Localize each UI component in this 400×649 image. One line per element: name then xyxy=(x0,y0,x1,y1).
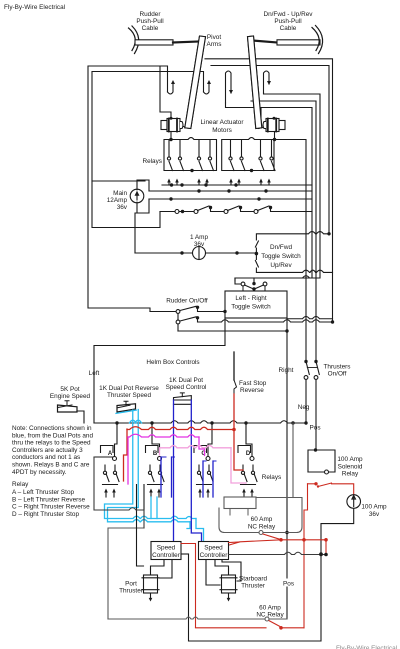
svg-text:Pos: Pos xyxy=(283,581,294,588)
relays label xyxy=(142,158,162,165)
svg-text:blue, from the Dual Pots and: blue, from the Dual Pots and xyxy=(12,432,93,439)
long vertical x287 xyxy=(286,318,288,619)
pivot arm left xyxy=(185,36,206,129)
svg-text:A: A xyxy=(108,451,113,457)
relay A xyxy=(101,446,117,461)
red feeds to SCs xyxy=(181,544,196,628)
up-arrow stubs to relays xyxy=(167,179,171,186)
main breaker CB1 xyxy=(130,189,144,203)
dn/fwd cable wire xyxy=(252,41,277,43)
svg-text:Pos: Pos xyxy=(310,425,321,432)
left actuator motor M1 xyxy=(160,66,188,132)
svg-text:Engine Speed: Engine Speed xyxy=(50,393,91,400)
right actuator motor M2 xyxy=(259,108,286,132)
svg-text:thru the relays to the Speed: thru the relays to the Speed xyxy=(12,440,91,447)
svg-text:Speed: Speed xyxy=(157,545,176,552)
black return from 100amp xyxy=(189,508,354,641)
hook 3 xyxy=(226,71,232,103)
pivot arms label xyxy=(207,34,222,48)
svg-text:Fly-By-Wire Electrical: Fly-By-Wire Electrical xyxy=(336,645,397,649)
svg-text:B – Left Thruster Reverse: B – Left Thruster Reverse xyxy=(12,496,85,503)
svg-text:B: B xyxy=(153,451,158,457)
grey enclosure xyxy=(108,528,265,619)
pivot arm right (over wires) xyxy=(248,36,262,129)
dn/fwd up/rev cable label xyxy=(263,11,313,32)
rudder push-pull cable label xyxy=(136,11,163,32)
left-right SPDT on top xyxy=(253,278,255,284)
svg-text:Helm Box Controls: Helm Box Controls xyxy=(146,359,199,366)
wire: top outer right xyxy=(205,59,333,322)
magenta wires xyxy=(128,434,199,437)
dn/fwd top contact xyxy=(255,232,329,254)
svg-text:D: D xyxy=(246,451,251,457)
svg-text:Motors: Motors xyxy=(212,127,232,134)
grey y510 wire xyxy=(94,457,144,528)
wire: motor1 bottom stub xyxy=(170,132,172,140)
rudder cable wire xyxy=(173,42,199,43)
up arrow stubs below relay D xyxy=(242,489,246,498)
cyan dual pot P2 xyxy=(117,404,136,412)
svg-text:Right: Right xyxy=(279,367,294,374)
svg-text:Cable: Cable xyxy=(142,25,159,32)
svg-text:1K Dual Pot Reverse: 1K Dual Pot Reverse xyxy=(99,385,159,392)
cyan tail into SC2 xyxy=(196,519,204,542)
pivot arm right xyxy=(248,36,262,129)
svg-text:Reverse: Reverse xyxy=(240,387,264,394)
wire: fuse row left drop xyxy=(135,213,137,253)
cyan verticals from pot xyxy=(105,410,197,519)
svg-text:Thruster Speed: Thruster Speed xyxy=(107,392,151,399)
svg-text:Up/Rev: Up/Rev xyxy=(270,262,292,269)
dn/fwd cable squiggle xyxy=(312,26,323,54)
60 amp NC relay 1 xyxy=(219,497,302,533)
dn/fwd cable sleeve xyxy=(277,40,320,45)
svg-text:Left: Left xyxy=(89,370,100,377)
wire: left outer frame xyxy=(88,66,168,312)
svg-text:On/Off: On/Off xyxy=(328,371,347,378)
rudder cable squiggle xyxy=(129,26,139,54)
fast stop switch P4 xyxy=(233,352,235,380)
svg-text:Toggle Switch: Toggle Switch xyxy=(261,253,301,260)
relay D xyxy=(238,446,254,461)
pivot arm left (over wires) xyxy=(185,36,206,129)
wire: breaker bottom loop xyxy=(137,199,149,213)
red row y429 xyxy=(127,427,234,430)
Dn/Fwd toggle switch SW2 xyxy=(261,244,301,269)
wire: hook3 to frame xyxy=(226,103,313,281)
svg-text:D – Right Thruster Stop: D – Right Thruster Stop xyxy=(12,511,79,518)
svg-text:4PDT by necessity.: 4PDT by necessity. xyxy=(12,469,67,476)
svg-text:Rudder On/Off: Rudder On/Off xyxy=(166,298,208,305)
node: dn/fwd toggle common xyxy=(255,252,259,256)
hook 2 xyxy=(204,82,210,94)
svg-text:Speed Control: Speed Control xyxy=(166,384,207,391)
bus row y199 xyxy=(149,198,312,200)
P1 wire to bus xyxy=(77,411,84,423)
wire: breaker top loop xyxy=(137,180,149,191)
1 Amp fuse F1 xyxy=(190,234,209,248)
port thruster xyxy=(142,569,159,602)
svg-text:Relay: Relay xyxy=(342,471,359,478)
fuse row y256 xyxy=(135,252,256,254)
Left-Right toggle switch box xyxy=(225,291,287,318)
red 60amp switch row xyxy=(228,534,328,628)
svg-text:Speed: Speed xyxy=(204,545,223,552)
wire: left bus to switch row xyxy=(92,181,160,228)
thrusters on/off switch 2 (pos) xyxy=(314,360,317,363)
up arrow stubs below relay A xyxy=(104,489,108,498)
svg-text:Push-Pull: Push-Pull xyxy=(274,18,301,25)
svg-text:Thruster: Thruster xyxy=(119,588,144,595)
relay contacts group2 xyxy=(229,140,234,171)
svg-text:1 Amp: 1 Amp xyxy=(190,234,209,241)
svg-text:Arms: Arms xyxy=(207,41,222,48)
hook 1 xyxy=(168,82,174,94)
svg-text:Relay: Relay xyxy=(12,481,29,488)
wire: motor2 bottom stub xyxy=(274,132,276,140)
svg-text:Main: Main xyxy=(113,190,127,197)
svg-text:shown. Relays B and C are: shown. Relays B and C are xyxy=(12,462,90,469)
wire: relay rail 2 to right vertical xyxy=(274,140,306,362)
bus row y185 xyxy=(162,184,312,186)
wire: right inner frame xyxy=(251,101,316,361)
row3 xyxy=(178,330,287,332)
neg bus y423 xyxy=(94,421,306,423)
relay B contacts xyxy=(148,465,165,485)
blue relay B verticals xyxy=(161,457,172,497)
wire: top second right xyxy=(211,66,329,234)
svg-text:12Amp: 12Amp xyxy=(107,197,128,204)
starboard thruster xyxy=(220,569,237,602)
svg-text:Controllers are actually 3: Controllers are actually 3 xyxy=(12,447,83,454)
switch row y211 xyxy=(160,211,175,213)
blue dual pot P3 xyxy=(174,396,192,400)
svg-text:Dn/Fwd: Dn/Fwd xyxy=(270,244,292,251)
A feed from left xyxy=(94,456,113,458)
svg-text:Port: Port xyxy=(125,581,137,588)
thrusters on/off switch 1 (neg) xyxy=(304,360,307,363)
relay C contacts xyxy=(197,465,214,485)
up arrow stubs below relay B xyxy=(149,489,153,498)
svg-text:C: C xyxy=(201,451,206,457)
svg-text:1K Dual Pot: 1K Dual Pot xyxy=(169,377,203,384)
svg-text:Controller: Controller xyxy=(200,552,229,559)
svg-text:Starboard: Starboard xyxy=(239,576,268,583)
svg-text:Neg: Neg xyxy=(298,404,310,411)
pink wires xyxy=(160,446,232,455)
svg-text:Linear Actuator: Linear Actuator xyxy=(201,119,245,126)
bus dots xyxy=(169,183,267,200)
svg-text:Solenoid: Solenoid xyxy=(338,463,363,470)
wire: hook4 frame xyxy=(264,93,321,278)
svg-text:Push-Pull: Push-Pull xyxy=(136,18,163,25)
relay contacts group1 xyxy=(167,140,172,171)
black SC outputs xyxy=(181,553,189,555)
helm box outline xyxy=(94,318,225,423)
linear actuator motors label xyxy=(201,119,245,134)
svg-text:C – Right Thruster Reverse: C – Right Thruster Reverse xyxy=(12,504,90,511)
red bottom switch xyxy=(196,621,305,630)
coil drops from neg bus xyxy=(115,423,253,457)
starboard wiring xyxy=(215,560,229,570)
hook 4 xyxy=(264,71,270,93)
svg-text:A – Left Thruster Stop: A – Left Thruster Stop xyxy=(12,489,74,496)
relay A contacts xyxy=(103,465,120,485)
svg-text:Thrusters: Thrusters xyxy=(324,364,351,371)
svg-text:NC Relay: NC Relay xyxy=(248,523,276,530)
bus row y191 xyxy=(149,190,312,192)
svg-text:Left - Right: Left - Right xyxy=(235,295,266,302)
relay D contacts xyxy=(241,465,258,485)
svg-text:Cable: Cable xyxy=(280,25,297,32)
wire: inner left frame xyxy=(92,72,204,182)
cyan stubs up to relay B xyxy=(151,497,157,519)
svg-text:5K Pot: 5K Pot xyxy=(60,386,79,393)
red from fast stop xyxy=(233,394,235,429)
relay group 2 frame xyxy=(222,138,274,171)
svg-text:60 Amp: 60 Amp xyxy=(259,605,281,612)
svg-text:Controller: Controller xyxy=(152,552,181,559)
svg-text:Fly-By-Wire Electrical: Fly-By-Wire Electrical xyxy=(4,4,65,11)
port wiring xyxy=(151,560,165,570)
red from fast stop down to relay D xyxy=(234,429,243,470)
svg-text:Relays: Relays xyxy=(262,474,282,481)
svg-text:Toggle Switch: Toggle Switch xyxy=(231,304,271,311)
svg-text:Pivot: Pivot xyxy=(207,34,221,41)
rudder on/off SW3 xyxy=(166,298,208,305)
rudder cable sleeve xyxy=(135,40,173,45)
blue relay C verticals xyxy=(203,461,213,497)
100 Amp 36v breaker xyxy=(347,495,361,509)
svg-text:Relays: Relays xyxy=(142,158,162,165)
svg-text:36v: 36v xyxy=(369,511,380,518)
relay group 1 frame xyxy=(164,138,217,171)
svg-text:100 Amp: 100 Amp xyxy=(361,504,387,511)
svg-text:conductors and not 1 as: conductors and not 1 as xyxy=(12,454,80,461)
100 amp solenoid relay box xyxy=(308,450,335,472)
grey drop to 60amp area xyxy=(292,423,294,498)
svg-text:Thruster: Thruster xyxy=(241,583,266,590)
relay B xyxy=(146,446,162,461)
svg-text:Fast Stop: Fast Stop xyxy=(239,380,267,387)
blue verticals from pot xyxy=(173,400,175,541)
wire y278 xyxy=(235,276,312,278)
svg-text:Note: Connections shown in: Note: Connections shown in xyxy=(12,425,92,432)
svg-text:Dn/Fwd - Up/Rev: Dn/Fwd - Up/Rev xyxy=(263,11,313,18)
relay C xyxy=(194,446,210,461)
note text xyxy=(12,425,93,518)
speed controller 1 xyxy=(151,542,181,560)
svg-text:NC Relay: NC Relay xyxy=(256,612,284,619)
svg-text:Rudder: Rudder xyxy=(140,11,162,18)
svg-text:36v: 36v xyxy=(117,204,128,211)
up arrow stubs below relay C xyxy=(198,489,202,498)
speed controller 2 xyxy=(199,542,229,560)
svg-text:60 Amp: 60 Amp xyxy=(251,516,273,523)
wire y318 row xyxy=(287,317,333,319)
dn/fwd bottom contact xyxy=(255,254,332,273)
5K pot P1 xyxy=(58,405,78,412)
bottom right grey text xyxy=(336,645,397,649)
red drop to relay A xyxy=(124,429,128,481)
svg-text:100 Amp: 100 Amp xyxy=(337,456,363,463)
black drops from relays A/B xyxy=(137,485,145,567)
red solenoid contact xyxy=(304,482,354,540)
